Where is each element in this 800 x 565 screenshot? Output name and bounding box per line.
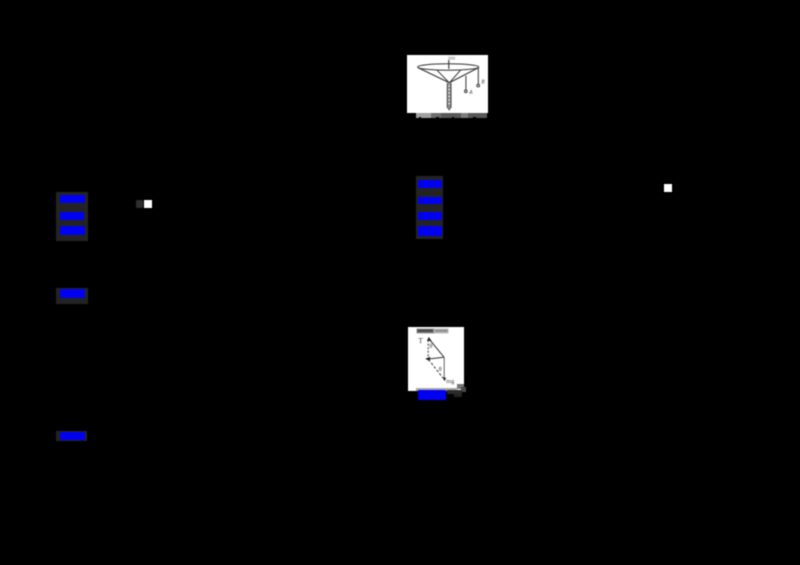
svg-text:A: A (468, 90, 473, 96)
svg-text:θ: θ (438, 367, 441, 373)
svg-text:T: T (418, 337, 423, 345)
svg-text:B: B (481, 79, 485, 85)
svg-text:θ: θ (429, 344, 432, 350)
svg-text:mg: mg (446, 378, 455, 385)
